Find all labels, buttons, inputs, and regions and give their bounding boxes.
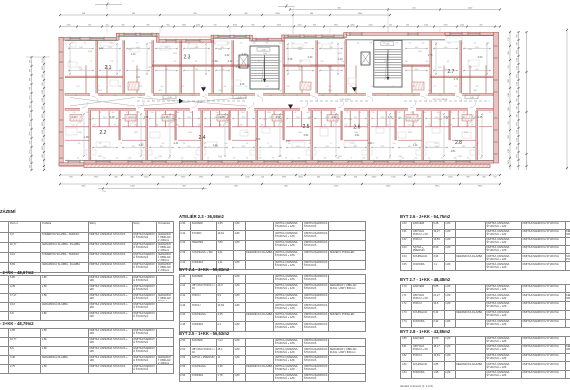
svg-text:2975: 2975	[435, 186, 440, 188]
svg-text:2.82: 2.82	[444, 116, 449, 119]
svg-text:600: 600	[402, 158, 405, 160]
svg-text:250: 250	[75, 95, 78, 97]
svg-text:1150: 1150	[449, 125, 452, 127]
svg-text:4200: 4200	[448, 177, 453, 179]
svg-text:1150: 1150	[475, 86, 478, 88]
svg-text:1.30: 1.30	[338, 58, 343, 61]
svg-text:2.38: 2.38	[385, 44, 389, 46]
svg-text:4500: 4500	[428, 90, 432, 92]
svg-text:250: 250	[140, 95, 143, 97]
svg-text:2975: 2975	[458, 156, 462, 158]
svg-text:1800: 1800	[150, 112, 153, 114]
svg-text:1850: 1850	[298, 69, 302, 71]
svg-text:1800: 1800	[362, 158, 365, 160]
svg-text:925: 925	[463, 112, 466, 114]
svg-text:925: 925	[266, 43, 269, 45]
svg-text:4200: 4200	[196, 25, 200, 27]
svg-text:900: 900	[313, 25, 316, 27]
svg-text:1150: 1150	[215, 61, 218, 63]
svg-text:900: 900	[508, 79, 510, 82]
svg-text:2.6: 2.6	[354, 125, 361, 131]
svg-text:2975: 2975	[42, 66, 44, 70]
svg-text:+2,85 =258,00: +2,85 =258,00	[339, 99, 351, 101]
svg-text:1500: 1500	[468, 49, 472, 51]
svg-text:600: 600	[455, 86, 458, 88]
svg-text:2975: 2975	[42, 122, 44, 126]
svg-text:1150: 1150	[344, 125, 347, 127]
svg-text:600: 600	[201, 43, 204, 45]
svg-text:600: 600	[112, 112, 115, 114]
svg-text:925: 925	[219, 125, 222, 127]
svg-text:2.62: 2.62	[332, 116, 337, 119]
svg-text:900: 900	[42, 154, 44, 157]
svg-text:1800: 1800	[176, 112, 179, 114]
svg-text:1150: 1150	[224, 143, 227, 145]
svg-text:2.63: 2.63	[286, 140, 291, 143]
svg-text:1800: 1800	[306, 112, 309, 114]
svg-text:600: 600	[168, 158, 171, 160]
svg-text:925: 925	[320, 112, 323, 114]
svg-text:925: 925	[294, 112, 297, 114]
svg-text:1150: 1150	[434, 143, 437, 145]
svg-text:1800: 1800	[252, 43, 255, 45]
svg-text:+2,85: +2,85	[237, 97, 242, 99]
svg-text:1.28: 1.28	[84, 136, 89, 139]
svg-text:600: 600	[153, 61, 156, 63]
svg-text:3550: 3550	[233, 25, 237, 27]
svg-text:1150: 1150	[140, 143, 143, 145]
svg-text:3250: 3250	[128, 49, 132, 51]
svg-text:925: 925	[229, 112, 232, 114]
svg-text:75: 75	[142, 158, 144, 160]
svg-text:75: 75	[359, 112, 361, 114]
svg-text:2150: 2150	[334, 186, 339, 188]
svg-text:2100: 2100	[418, 51, 422, 53]
svg-text:3100: 3100	[415, 47, 419, 49]
svg-text:600: 600	[177, 125, 180, 127]
svg-text:2.52: 2.52	[276, 116, 281, 119]
svg-text:3950: 3950	[298, 47, 302, 49]
svg-text:75: 75	[258, 61, 260, 63]
svg-text:600: 600	[231, 95, 234, 97]
svg-text:925: 925	[376, 158, 379, 160]
svg-text:1800: 1800	[347, 95, 350, 97]
svg-text:2.43: 2.43	[308, 56, 313, 59]
svg-text:1800: 1800	[308, 95, 311, 97]
svg-text:300: 300	[517, 90, 519, 93]
svg-text:75: 75	[366, 125, 368, 127]
svg-text:600: 600	[161, 86, 164, 88]
svg-text:600: 600	[218, 95, 221, 97]
svg-text:2.36: 2.36	[288, 58, 293, 61]
svg-text:1925: 1925	[444, 25, 448, 27]
svg-text:2100: 2100	[88, 119, 92, 121]
svg-text:1.14: 1.14	[131, 53, 136, 56]
svg-text:1150: 1150	[92, 125, 95, 127]
svg-text:3950: 3950	[108, 47, 112, 49]
svg-text:1800: 1800	[334, 95, 337, 97]
svg-text:925: 925	[456, 143, 459, 145]
svg-text:1850: 1850	[187, 117, 191, 119]
svg-text:250: 250	[246, 143, 249, 145]
svg-text:1875: 1875	[148, 67, 152, 69]
svg-text:300: 300	[30, 60, 32, 63]
svg-text:75: 75	[97, 43, 99, 45]
svg-text:3950: 3950	[408, 146, 412, 148]
svg-text:300: 300	[317, 177, 321, 179]
svg-text:2975: 2975	[278, 156, 282, 158]
svg-text:150: 150	[389, 25, 392, 27]
svg-text:1800: 1800	[323, 158, 326, 160]
svg-text:2.2: 2.2	[100, 130, 107, 136]
svg-text:600: 600	[182, 86, 185, 88]
svg-text:900: 900	[30, 105, 32, 108]
svg-text:450: 450	[406, 25, 409, 27]
svg-text:2.1: 2.1	[105, 65, 112, 71]
svg-text:250: 250	[476, 112, 479, 114]
svg-text:75: 75	[434, 86, 436, 88]
svg-text:250: 250	[422, 43, 425, 45]
svg-text:1150: 1150	[407, 125, 410, 127]
svg-text:900: 900	[147, 25, 150, 27]
svg-text:2100: 2100	[244, 132, 248, 134]
svg-text:925: 925	[439, 95, 442, 97]
svg-text:250: 250	[69, 61, 72, 63]
svg-text:1150: 1150	[320, 61, 323, 63]
svg-text:2975: 2975	[517, 122, 519, 126]
svg-text:2.28: 2.28	[110, 116, 115, 119]
svg-text:1200: 1200	[460, 25, 464, 27]
svg-text:3550: 3550	[298, 177, 303, 179]
svg-text:1850: 1850	[296, 117, 300, 119]
svg-text:450: 450	[480, 25, 483, 27]
svg-text:2975: 2975	[30, 122, 32, 126]
svg-text:3250: 3250	[328, 90, 332, 92]
svg-text:3100: 3100	[136, 47, 140, 49]
svg-text:4525: 4525	[381, 146, 385, 148]
svg-text:1800: 1800	[453, 158, 456, 160]
svg-text:150: 150	[493, 177, 497, 179]
svg-text:900: 900	[167, 25, 170, 27]
svg-text:4525: 4525	[354, 146, 358, 148]
svg-text:250: 250	[279, 61, 282, 63]
svg-text:2650: 2650	[435, 117, 439, 119]
svg-text:1850: 1850	[381, 117, 385, 119]
svg-text:250: 250	[77, 158, 80, 160]
svg-text:2.4: 2.4	[199, 135, 206, 141]
svg-text:2.8: 2.8	[455, 140, 462, 146]
svg-text:1800: 1800	[304, 43, 307, 45]
svg-text:150: 150	[106, 25, 109, 27]
svg-text:1800: 1800	[412, 86, 415, 88]
svg-text:1.10: 1.10	[164, 116, 169, 119]
svg-text:1200: 1200	[517, 58, 519, 62]
svg-text:2.19: 2.19	[236, 66, 241, 69]
svg-text:925: 925	[350, 86, 353, 88]
svg-text:250: 250	[153, 95, 156, 97]
svg-text:4200: 4200	[225, 177, 230, 179]
svg-text:3950: 3950	[415, 69, 419, 71]
svg-text:75: 75	[452, 95, 454, 97]
svg-text:75: 75	[491, 95, 493, 97]
svg-text:1800: 1800	[241, 112, 244, 114]
svg-text:1850: 1850	[221, 47, 225, 49]
svg-text:2.72: 2.72	[388, 116, 393, 119]
svg-text:300: 300	[517, 42, 519, 45]
svg-text:2150: 2150	[508, 149, 510, 153]
svg-text:250: 250	[203, 86, 206, 88]
svg-text:3250: 3250	[78, 67, 82, 69]
svg-text:300: 300	[42, 82, 44, 85]
svg-text:1150: 1150	[397, 112, 400, 114]
svg-text:1150: 1150	[71, 125, 74, 127]
svg-text:2.42: 2.42	[228, 60, 233, 63]
svg-text:300: 300	[517, 114, 519, 117]
svg-text:4500: 4500	[88, 51, 92, 53]
svg-text:2975: 2975	[263, 119, 267, 121]
svg-text:250: 250	[116, 158, 119, 160]
svg-text:1800: 1800	[189, 112, 192, 114]
svg-text:1500: 1500	[173, 119, 177, 121]
svg-text:925: 925	[73, 112, 76, 114]
svg-text:75: 75	[477, 143, 479, 145]
svg-text:250: 250	[272, 158, 275, 160]
svg-text:925: 925	[123, 43, 126, 45]
svg-text:600: 600	[461, 43, 464, 45]
svg-text:2.63: 2.63	[478, 56, 483, 59]
svg-text:1200: 1200	[369, 25, 373, 27]
svg-text:925: 925	[84, 43, 87, 45]
svg-text:2.61: 2.61	[355, 134, 360, 137]
svg-text:925: 925	[233, 158, 236, 160]
svg-text:925: 925	[246, 158, 249, 160]
svg-text:1800: 1800	[317, 43, 320, 45]
svg-text:4525: 4525	[103, 117, 107, 119]
svg-text:600: 600	[329, 86, 332, 88]
svg-text:1800: 1800	[165, 95, 168, 97]
svg-text:754: 754	[102, 191, 106, 193]
svg-text:3100: 3100	[269, 117, 273, 119]
svg-text:300: 300	[30, 87, 32, 90]
svg-text:4500: 4500	[128, 117, 132, 119]
svg-text:600: 600	[437, 112, 440, 114]
svg-text:600: 600	[270, 95, 273, 97]
svg-text:2150: 2150	[424, 25, 428, 27]
svg-text:1.24: 1.24	[144, 116, 149, 119]
svg-text:3950: 3950	[160, 146, 164, 148]
svg-text:75: 75	[179, 95, 181, 97]
svg-text:250: 250	[428, 158, 431, 160]
svg-text:75: 75	[207, 158, 209, 160]
svg-text:2.44: 2.44	[256, 138, 261, 141]
svg-text:300: 300	[508, 135, 510, 138]
svg-text:1200: 1200	[130, 186, 135, 188]
svg-text:75: 75	[468, 61, 470, 63]
svg-text:2975: 2975	[30, 131, 32, 135]
svg-text:3250: 3250	[298, 49, 302, 51]
svg-text:4525: 4525	[132, 117, 136, 119]
svg-text:150: 150	[214, 25, 217, 27]
svg-text:4200: 4200	[408, 177, 413, 179]
svg-text:75: 75	[220, 158, 222, 160]
svg-text:925: 925	[257, 95, 260, 97]
svg-text:150: 150	[508, 65, 510, 68]
svg-text:900: 900	[517, 146, 519, 149]
svg-text:1150: 1150	[299, 61, 302, 63]
svg-text:+2,85: +2,85	[167, 97, 172, 99]
svg-text:2.9: 2.9	[136, 76, 140, 79]
svg-text:1150: 1150	[332, 112, 335, 114]
svg-text:925: 925	[371, 86, 374, 88]
svg-text:4525: 4525	[296, 146, 300, 148]
svg-text:1150: 1150	[254, 112, 257, 114]
svg-text:75: 75	[120, 143, 122, 145]
svg-text:75: 75	[90, 61, 92, 63]
svg-text:1875: 1875	[173, 53, 177, 55]
svg-text:2.81: 2.81	[451, 150, 456, 153]
svg-text:150: 150	[261, 177, 265, 179]
svg-text:1850: 1850	[329, 47, 333, 49]
svg-text:1150: 1150	[126, 95, 129, 97]
svg-text:600: 600	[424, 112, 427, 114]
svg-text:925: 925	[245, 86, 248, 88]
svg-text:2975: 2975	[282, 177, 287, 179]
svg-text:1925: 1925	[94, 177, 99, 179]
svg-text:75: 75	[350, 158, 352, 160]
svg-text:600: 600	[283, 95, 286, 97]
svg-text:1500: 1500	[188, 132, 192, 134]
svg-text:250: 250	[474, 43, 477, 45]
svg-text:925: 925	[99, 143, 102, 145]
svg-text:75: 75	[205, 95, 207, 97]
svg-text:75: 75	[387, 125, 389, 127]
svg-text:75: 75	[132, 61, 134, 63]
svg-text:300: 300	[42, 74, 44, 77]
svg-text:600: 600	[279, 43, 282, 45]
svg-text:250: 250	[174, 61, 177, 63]
svg-text:2.32: 2.32	[225, 54, 230, 57]
svg-text:900: 900	[82, 186, 86, 188]
svg-text:1875: 1875	[98, 156, 102, 158]
svg-text:1850: 1850	[462, 146, 466, 148]
svg-text:75: 75	[392, 86, 394, 88]
svg-text:2150: 2150	[517, 130, 519, 134]
svg-text:1800: 1800	[187, 43, 190, 45]
svg-text:600: 600	[426, 61, 429, 63]
svg-text:2.38: 2.38	[262, 49, 266, 51]
svg-text:1800: 1800	[410, 112, 413, 114]
svg-text:3100: 3100	[444, 47, 448, 49]
svg-text:75: 75	[125, 112, 127, 114]
svg-text:300: 300	[42, 138, 44, 141]
svg-text:925: 925	[311, 158, 314, 160]
svg-text:2975: 2975	[30, 95, 32, 99]
svg-text:1200: 1200	[391, 177, 396, 179]
svg-text:2100: 2100	[298, 132, 302, 134]
svg-text:1875: 1875	[468, 67, 472, 69]
svg-text:300: 300	[182, 186, 186, 188]
svg-text:1925: 1925	[199, 177, 204, 179]
svg-text:2.7: 2.7	[448, 69, 455, 75]
svg-text:2650: 2650	[242, 146, 246, 148]
svg-text:2650: 2650	[221, 69, 225, 71]
svg-text:600: 600	[224, 86, 227, 88]
svg-text:1150: 1150	[113, 95, 116, 97]
svg-text:2.41: 2.41	[174, 142, 179, 145]
svg-text:3250: 3250	[408, 132, 412, 134]
svg-text:1500: 1500	[218, 49, 222, 51]
svg-text:1150: 1150	[226, 43, 229, 45]
svg-text:75: 75	[90, 158, 92, 160]
svg-text:1500: 1500	[263, 53, 267, 55]
svg-text:300: 300	[114, 177, 118, 179]
svg-text:600: 600	[110, 43, 113, 45]
svg-text:600: 600	[88, 95, 91, 97]
svg-text:2650: 2650	[475, 69, 479, 71]
svg-text:1150: 1150	[371, 143, 374, 145]
svg-text:250: 250	[363, 61, 366, 63]
svg-text:4525: 4525	[136, 69, 140, 71]
svg-text:1850: 1850	[475, 47, 479, 49]
svg-text:250: 250	[467, 158, 470, 160]
svg-text:150: 150	[30, 141, 32, 144]
svg-text:925: 925	[450, 112, 453, 114]
svg-text:75: 75	[267, 143, 269, 145]
svg-text:3550: 3550	[182, 25, 186, 27]
svg-text:1.12: 1.12	[99, 47, 104, 50]
svg-text:1500: 1500	[218, 117, 222, 119]
svg-text:1150: 1150	[236, 61, 239, 63]
svg-text:2.10: 2.10	[198, 100, 203, 103]
svg-text:2.35: 2.35	[478, 116, 483, 119]
svg-text:2975: 2975	[30, 113, 32, 117]
svg-text:75: 75	[385, 112, 387, 114]
svg-text:925: 925	[78, 143, 81, 145]
svg-text:75: 75	[281, 112, 283, 114]
svg-text:75: 75	[203, 112, 205, 114]
svg-text:600: 600	[287, 86, 290, 88]
svg-text:1200: 1200	[508, 93, 510, 97]
svg-text:1800: 1800	[118, 86, 121, 88]
svg-text:1800: 1800	[191, 95, 194, 97]
svg-text:600: 600	[448, 43, 451, 45]
svg-text:925: 925	[384, 61, 387, 63]
svg-text:3100: 3100	[269, 146, 273, 148]
svg-text:1150: 1150	[350, 143, 353, 145]
svg-text:2975: 2975	[334, 25, 338, 27]
svg-text:300: 300	[122, 25, 125, 27]
svg-text:4500: 4500	[398, 117, 402, 119]
svg-text:250: 250	[285, 158, 288, 160]
svg-text:250: 250	[261, 125, 264, 127]
svg-text:250: 250	[489, 112, 492, 114]
svg-text:300: 300	[508, 51, 510, 54]
svg-text:250: 250	[183, 143, 186, 145]
svg-text:925: 925	[426, 95, 429, 97]
svg-text:600: 600	[414, 143, 417, 145]
svg-text:250: 250	[465, 95, 468, 97]
svg-text:2650: 2650	[79, 69, 83, 71]
svg-text:75: 75	[361, 95, 363, 97]
svg-text:2.20: 2.20	[72, 116, 77, 119]
svg-text:900: 900	[234, 186, 238, 188]
svg-text:2975: 2975	[298, 67, 302, 69]
svg-text:2650: 2650	[325, 146, 329, 148]
svg-text:3100: 3100	[187, 146, 191, 148]
svg-text:925: 925	[164, 112, 167, 114]
svg-text:1150: 1150	[76, 86, 79, 88]
svg-text:2650: 2650	[242, 117, 246, 119]
